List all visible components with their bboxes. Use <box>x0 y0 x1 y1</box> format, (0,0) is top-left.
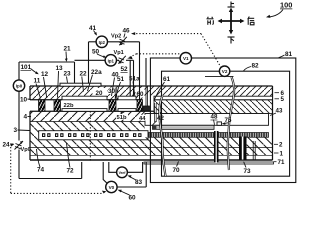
channel row floor line <box>30 110 154 112</box>
reference electrode 42 strip <box>152 126 157 130</box>
svg-text:60: 60 <box>129 195 137 201</box>
riser wires inside element <box>89 111 91 162</box>
layer 1 hatch band <box>30 148 273 156</box>
svg-text:Ip0: Ip0 <box>16 84 23 89</box>
svg-text:81: 81 <box>285 51 293 58</box>
V2 circle <box>219 66 229 76</box>
wire below V2 <box>205 75 234 77</box>
ammeter Ip1 <box>105 55 116 66</box>
svg-text:41: 41 <box>89 25 97 32</box>
second diffusion barrier 13 <box>54 100 61 112</box>
lead wire W1 wavy <box>159 96 165 177</box>
left edge upper <box>29 86 31 100</box>
pressure release vent 75 <box>217 122 222 125</box>
variable power source 52 Vp1 <box>118 56 125 64</box>
svg-text:5: 5 <box>281 96 285 103</box>
V0 circuit wires <box>103 162 146 187</box>
Vref circle <box>117 167 128 178</box>
inner protective cover 82 <box>162 71 290 176</box>
through-hole conductor bar A <box>214 131 219 163</box>
svg-text:60: 60 <box>137 91 144 98</box>
layer5 hatch right portion <box>154 100 273 114</box>
labels 51b 44 <box>116 111 147 122</box>
heater insulation band 74 <box>39 131 148 140</box>
dotted control line V2 to 46 <box>133 34 221 67</box>
svg-text:74: 74 <box>37 167 45 174</box>
porous plate 48 in duct <box>153 125 214 129</box>
svg-text:Ip2: Ip2 <box>99 40 106 45</box>
svg-text:48: 48 <box>211 114 218 121</box>
outer protective cover 81 <box>150 58 295 183</box>
white window over chamber 60 <box>136 88 145 96</box>
svg-text:12: 12 <box>41 71 49 78</box>
sensor element body outline <box>30 86 273 160</box>
third diffusion barrier 30 <box>109 100 116 112</box>
svg-text:V0: V0 <box>109 185 115 190</box>
svg-text:Vref: Vref <box>119 171 127 175</box>
svg-text:V2: V2 <box>222 69 228 74</box>
svg-text:22b: 22b <box>64 103 74 109</box>
first diffusion barrier 11 <box>39 100 46 112</box>
svg-text:51b: 51b <box>117 115 127 121</box>
electrode 51a ceiling strip <box>118 96 136 100</box>
electrode 22a ceiling strip <box>62 96 107 100</box>
svg-text:Vp2: Vp2 <box>111 34 121 40</box>
through-hole conductor 73 <box>239 137 247 160</box>
V0 circle <box>106 181 117 192</box>
svg-text:21: 21 <box>64 46 72 53</box>
svg-text:42: 42 <box>157 115 164 122</box>
measuring pump circuit wires (41 loop) <box>89 42 140 100</box>
compass glyph up (shang) <box>228 2 235 8</box>
V1 sensor cell wire <box>145 58 147 85</box>
svg-text:2: 2 <box>279 142 283 149</box>
layer6 lower strips over barriers <box>30 96 62 100</box>
white window over chamber 20 <box>93 88 108 96</box>
svg-text:3: 3 <box>14 127 18 134</box>
svg-text:82: 82 <box>252 63 260 70</box>
svg-text:83: 83 <box>135 179 143 186</box>
reference gas duct 43 (white) <box>145 114 269 126</box>
svg-text:52: 52 <box>121 66 129 73</box>
svg-text:51: 51 <box>117 76 125 83</box>
heater connector layer 71 strip <box>144 162 274 164</box>
svg-text:46: 46 <box>123 28 131 35</box>
ammeter Ip2 <box>96 36 107 47</box>
svg-text:51a: 51a <box>129 76 140 83</box>
svg-text:23: 23 <box>64 71 72 78</box>
fine striped layer under duct <box>145 133 269 138</box>
layer 6 top band hatch <box>30 86 273 96</box>
lead wire W2 wavy <box>228 77 234 170</box>
variable power source 24 Vp0 <box>15 141 24 150</box>
svg-text:101: 101 <box>21 64 32 71</box>
channel roof line left <box>30 99 143 101</box>
white window over diffusion 30 <box>108 88 117 95</box>
chamber 61 cavity <box>143 96 155 111</box>
electrode 23 on top surface <box>60 83 101 86</box>
svg-text:4: 4 <box>24 114 28 121</box>
variable power source 46 Vp2 <box>119 37 127 45</box>
svg-text:11: 11 <box>34 78 41 85</box>
svg-text:20: 20 <box>96 90 103 97</box>
svg-text:Vp1: Vp1 <box>114 50 124 56</box>
svg-text:Vp0: Vp0 <box>21 147 31 153</box>
ammeter Ip0 <box>13 80 24 91</box>
layer 3 hatch band left <box>30 122 145 131</box>
fourth diffusion barrier 45 <box>137 100 143 112</box>
svg-text:43: 43 <box>276 108 283 115</box>
hatch filler left of heater <box>30 131 39 140</box>
layer 4 hatch band <box>30 111 145 121</box>
compass glyph back (hou) <box>248 17 255 25</box>
V1 circle <box>180 53 191 64</box>
compass glyph front (qian) <box>207 17 214 25</box>
svg-text:13: 13 <box>56 65 64 72</box>
compass cross <box>221 11 241 31</box>
lead band under layer 6 (right portion) <box>154 96 273 100</box>
svg-text:22: 22 <box>80 71 88 78</box>
svg-text:71: 71 <box>278 159 285 166</box>
element bottom edge <box>30 159 273 161</box>
dotted control line V0 to 24 <box>11 147 104 193</box>
Vref circuit wires <box>109 162 143 172</box>
dotted control line V1 to 52 <box>129 54 180 58</box>
heater coil 72 squares <box>42 133 142 137</box>
svg-text:72: 72 <box>67 168 75 175</box>
svg-text:1: 1 <box>280 151 284 158</box>
svg-text:73: 73 <box>244 168 252 175</box>
svg-text:10: 10 <box>20 97 28 104</box>
electrode 51b floor strip <box>118 109 136 112</box>
svg-text:100: 100 <box>280 1 292 10</box>
svg-text:V1: V1 <box>183 56 189 61</box>
top edge line <box>30 85 273 87</box>
svg-text:Ip1: Ip1 <box>108 58 115 63</box>
element right edge <box>272 86 274 160</box>
electrode 22b floor strip <box>62 109 107 112</box>
auxiliary pump circuit wires (50 loop) <box>75 60 134 96</box>
left edge lower <box>29 111 31 160</box>
layer 2 hatch band <box>30 140 145 148</box>
compass glyph down (xia) <box>228 37 235 44</box>
svg-text:70: 70 <box>173 167 181 174</box>
svg-text:44: 44 <box>139 116 146 122</box>
main pump circuit box 21 wires <box>19 62 82 179</box>
svg-text:30: 30 <box>108 88 115 95</box>
measuring electrode 44 <box>143 106 150 111</box>
svg-text:24: 24 <box>3 142 11 149</box>
